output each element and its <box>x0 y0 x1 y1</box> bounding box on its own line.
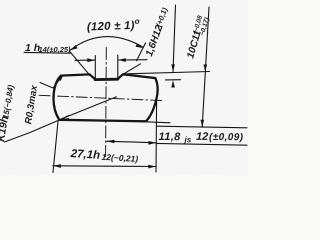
groove wall extension left <box>69 51 89 75</box>
groove flat bottom (thick) <box>95 78 118 81</box>
angle arc 120deg <box>70 37 143 51</box>
arrow 11,8 left <box>107 140 115 144</box>
dim line 27,1 <box>53 165 157 168</box>
svg-text:js: js <box>183 135 191 144</box>
diameter diagonal K19 <box>61 97 117 120</box>
text 11,8js12(±0,09) <box>158 131 243 145</box>
text (120 ± 1)° <box>87 17 140 34</box>
arrow arc left <box>70 45 78 50</box>
leader 1h14 underline <box>24 51 70 54</box>
dim line 11,8 <box>107 141 157 143</box>
text 1h14(±0,25) <box>25 42 71 54</box>
svg-text:(±0,09): (±0,09) <box>209 132 244 143</box>
arrow 27,1 right <box>148 165 156 169</box>
arrow 1,6 bottom (points up at y80) <box>171 80 175 87</box>
text 10C11(-0,08/-0,17) <box>185 15 211 61</box>
arrow R0,3 leader <box>58 75 63 81</box>
dim line 1,6 depth (x=173) <box>173 5 176 72</box>
extension line right shared (11,8 / 27,1) <box>155 101 158 172</box>
svg-text:14(±0,25): 14(±0,25) <box>39 45 72 54</box>
groove bottom extension stub right <box>166 79 181 81</box>
arrow 11,8 right <box>149 141 157 145</box>
extension line left 27,1 <box>53 122 58 173</box>
horizontal centerline <box>39 95 163 100</box>
groove width extension lines <box>94 56 96 80</box>
text K19h15(-0,84) <box>0 83 16 142</box>
leader K19 text <box>5 121 59 143</box>
arrow 10C11 top (points down at y72) <box>204 65 208 72</box>
text R0,3max <box>23 84 40 125</box>
arrow groove width right (points left) <box>118 58 126 62</box>
bottom edge extension right <box>146 122 170 123</box>
arrow 27,1 left <box>53 164 61 168</box>
text 1,6H12(+0,1) <box>144 6 172 58</box>
arrow arc right <box>136 43 144 48</box>
vertical centerline <box>105 48 108 157</box>
dim line 10C11 (x=203) <box>202 7 209 127</box>
arrow 10C11 bottom (points down at y127) <box>201 120 205 127</box>
svg-text:(120 ± 1): (120 ± 1) <box>87 20 135 34</box>
top surface extension line right <box>124 72 210 74</box>
arrow groove width left (points right) <box>87 58 95 62</box>
groove wall extension right <box>123 64 141 75</box>
arrow 1,6 top (points down at y72) <box>171 64 175 71</box>
text 27,1h12(-0,21) <box>69 148 138 164</box>
part outline (barrel roller body) <box>53 74 157 121</box>
groove width dimension line with outside arrows <box>75 59 95 61</box>
svg-text:11,8: 11,8 <box>158 131 181 143</box>
svg-text:12: 12 <box>196 131 208 143</box>
leader R0,3 <box>40 76 63 88</box>
svg-text:o: o <box>135 17 140 26</box>
10C11 lower reference line <box>157 126 248 128</box>
arc reference line right <box>137 43 146 61</box>
arrow diameter open barbs <box>61 115 69 119</box>
svg-text:27,1h: 27,1h <box>69 148 100 162</box>
